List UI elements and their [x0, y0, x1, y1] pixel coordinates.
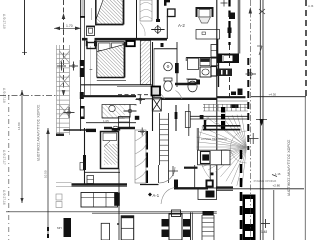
- bathroom top wall: [154, 48, 178, 50]
- cross symbol g: [246, 69, 257, 80]
- landing walls right: [203, 103, 248, 105]
- shaft black box: [152, 87, 161, 96]
- toilet T2: [188, 81, 197, 92]
- svg-text:1.05: 1.05: [103, 119, 109, 123]
- bedroom2 bottom wall: [81, 84, 152, 86]
- top dimension line 1.70: [54, 26, 81, 32]
- thick terrace wall: [72, 183, 128, 185]
- stove: [217, 69, 233, 77]
- bed B3 hatched: [104, 144, 117, 165]
- window cross symbol: [151, 25, 164, 34]
- door arc dining: [161, 188, 175, 205]
- shower room floor: [102, 105, 136, 119]
- black wall band in bath: [175, 83, 196, 85]
- vanity cabinet: [119, 117, 130, 128]
- balcony door sill: [64, 129, 87, 131]
- shower cabin: [188, 58, 199, 69]
- cross symbol b: [69, 62, 78, 71]
- svg-text:A.Φ.27-16: A.Φ.27-16: [2, 190, 6, 205]
- svg-text:A-1: A-1: [153, 193, 160, 198]
- lower-left small planters: [56, 194, 62, 200]
- wall mid: [194, 165, 196, 188]
- svg-text:1.16: 1.16: [275, 172, 281, 176]
- bath2 sink: [200, 67, 211, 77]
- nightstand N2: [87, 43, 96, 49]
- tick on boundary: [22, 52, 27, 54]
- main right wall: [216, 0, 218, 189]
- svg-text:1.70: 1.70: [66, 24, 73, 28]
- arrow on dash-dot: [249, 7, 252, 14]
- wall cap: [80, 16, 85, 18]
- heavy dashed boundary lower: [240, 150, 243, 240]
- bed B3 fold: [104, 141, 110, 147]
- stair duct black bar: [221, 107, 225, 130]
- bed B2 fold line: [97, 44, 125, 51]
- svg-text:A.Φ.27-19: A.Φ.27-19: [2, 14, 6, 29]
- boundary heavy dashed x229 top: [228, 0, 230, 45]
- bathroom mid wall: [176, 42, 178, 87]
- shower bench line: [102, 117, 130, 119]
- dining chairs right: [183, 219, 190, 227]
- svg-text:A-2: A-2: [178, 23, 185, 28]
- wall x176 with pier: [175, 105, 177, 131]
- sink S1: [164, 62, 173, 71]
- black box with white inner: [206, 180, 214, 188]
- svg-text:ΙΔΙΩΤΙΚΟΣ ΑΚΑΛΥΠΤΟΣ ΧΩΡΟΣ: ΙΔΙΩΤΙΚΟΣ ΑΚΑΛΥΠΤΟΣ ΧΩΡΟΣ: [37, 104, 41, 161]
- living room wall line: [118, 169, 120, 240]
- shower south dark band: [104, 127, 135, 130]
- heavy dashed boundary upper: [247, 58, 249, 150]
- black L wall: [174, 180, 178, 190]
- shower head circle: [109, 105, 115, 111]
- room3 left wall: [84, 128, 86, 185]
- terrace line across: [6, 211, 217, 213]
- counter with dark top: [200, 58, 210, 65]
- short wall: [186, 78, 196, 80]
- black pier bath2: [196, 80, 200, 85]
- sofa: [81, 193, 118, 208]
- arrow on property line: [259, 119, 263, 126]
- balcony railing strip: [57, 45, 70, 135]
- sofa dark right arm: [114, 193, 120, 206]
- coffee table: [101, 223, 109, 240]
- svg-text:Α.Φ.: Α.Φ.: [308, 4, 314, 8]
- bed B2 hatched: [97, 44, 125, 77]
- thin dash-dot x250 upper: [249, 0, 251, 150]
- left dimension line with arrows: [20, 90, 23, 203]
- plus mark top: [221, 0, 228, 7]
- stool: [87, 176, 94, 184]
- bed B1 frame: [95, 0, 97, 26]
- bathroom left wall: [152, 42, 154, 131]
- bench: [196, 30, 220, 40]
- bed B1 hatched: [96, 0, 124, 25]
- elevator black stack: [243, 195, 256, 240]
- axis arrows: [62, 13, 66, 96]
- svg-text:+2.80: +2.80: [273, 184, 281, 188]
- right ground line: [251, 96, 306, 98]
- dash-dot axis x63: [63, 0, 65, 96]
- kitchen small marks: [231, 92, 236, 96]
- heavy dashes bottom of dim line: [47, 227, 49, 240]
- room3 top wall: [86, 122, 136, 124]
- svg-text:+4.30: +4.30: [269, 92, 277, 96]
- right terrace line: [217, 188, 304, 190]
- wardrobe W1 arcs: [140, 0, 152, 21]
- nightstand N1: [87, 26, 95, 36]
- corridor black bar: [146, 131, 148, 183]
- black L bracket: [164, 0, 170, 6]
- lower-left black stair block: [64, 218, 72, 237]
- stair strip dark cap: [203, 211, 214, 216]
- landing double black wall: [203, 125, 241, 127]
- railing end cap: [56, 134, 64, 137]
- curved stair fan: [197, 114, 247, 187]
- X mark on line top: [259, 9, 265, 14]
- boundary thin dashed x229 lower: [229, 45, 231, 97]
- bed B2 pillows: [99, 43, 111, 51]
- balcony edge lines: [56, 182, 72, 184]
- bed B2 frame: [97, 42, 125, 78]
- lower-left dimension vline: [46, 128, 50, 238]
- toilet T1: [164, 81, 172, 91]
- sliding door dashed: [118, 94, 152, 96]
- door arc below W1: [140, 23, 145, 37]
- white patch: [125, 106, 138, 119]
- wall by dining: [190, 212, 192, 240]
- wall pier fills left: [80, 60, 84, 77]
- chair under desk: [199, 17, 211, 23]
- vline right of elevator: [273, 190, 275, 240]
- dining table: [169, 214, 182, 240]
- cross symbol e: [168, 166, 178, 176]
- svg-text:1.48: 1.48: [261, 230, 267, 234]
- dining chair top: [172, 210, 181, 217]
- svg-text:ΞΥΛΙΝΗ ΠΕΡΓΚΟΛΑ: ΞΥΛΙΝΗ ΠΕΡΓΚΟΛΑ: [201, 137, 227, 141]
- cross symbol f: [261, 219, 270, 228]
- bedroom1 right wall: [136, 0, 138, 39]
- window centre line: [90, 46, 92, 95]
- left boundary dash-dot vline: [8, 95, 10, 240]
- wall pier kitchen: [216, 39, 218, 54]
- seven mark: [257, 46, 262, 55]
- bathroom pier: [175, 63, 179, 73]
- small tick left of bed1: [90, 8, 92, 20]
- window jambs left: [86, 41, 88, 47]
- under-stair desk: [197, 128, 230, 165]
- bedroom1 left wall: [82, 0, 84, 16]
- A-2 room left wall: [166, 16, 168, 39]
- thin dash-dot lower: [250, 150, 252, 240]
- left margin tiny text column: [2, 14, 6, 205]
- window jamb box: [126, 41, 135, 46]
- svg-text:A.Φ.27-17: A.Φ.27-17: [2, 150, 6, 165]
- bed B1 fold line: [96, 0, 104, 21]
- big cross symbol hall: [124, 105, 137, 118]
- door arc living: [159, 167, 175, 183]
- dining chairs left: [162, 219, 169, 227]
- svg-text:10.50: 10.50: [44, 170, 48, 178]
- door arc corridor: [176, 91, 183, 100]
- porch edge double vline: [237, 0, 239, 54]
- stair down strip bottom right: [202, 215, 214, 240]
- top-right room: small square: [168, 9, 176, 17]
- duct shaft bottom: [121, 216, 134, 240]
- kitchen counter dark: [217, 54, 239, 64]
- shelf above bed3: [112, 128, 121, 131]
- cross symbol corridor: [136, 95, 146, 104]
- svg-text:ΜΠ: ΜΠ: [57, 226, 62, 230]
- stair left wall: [188, 104, 190, 136]
- kitchen island: [198, 188, 217, 200]
- far right boundary dashed: [305, 0, 307, 97]
- box with X: [152, 98, 161, 112]
- double property line: [259, 0, 261, 240]
- black blob hall: [135, 116, 140, 120]
- straight stair: [160, 113, 169, 183]
- dash-dot boundary hline y95: [0, 95, 58, 97]
- appliance box: [211, 67, 217, 77]
- left boundary vline top: [24, 0, 26, 55]
- svg-text:ΣΤΑΘΜΗ ΟΡΟΦΗΣ: ΣΤΑΘΜΗ ΟΡΟΦΗΣ: [254, 179, 277, 183]
- bed B3 frame: [101, 132, 119, 169]
- cross symbol a: [57, 62, 66, 71]
- bed B3 pillow: [103, 133, 117, 141]
- bidet oval: [113, 126, 119, 131]
- cross symbol d: [138, 128, 146, 136]
- kitchen tall cabinet: [211, 45, 218, 58]
- window gap left: [88, 38, 95, 42]
- label A-1: [148, 193, 152, 197]
- door jamb dark: [161, 43, 164, 47]
- svg-text:ΙΔΙΩΤΙΚΟΣ ΑΚΑΛΥΠΤΟΣ ΧΩΡΟΣ: ΙΔΙΩΤΙΚΟΣ ΑΚΑΛΥΠΤΟΣ ΧΩΡΟΣ: [287, 139, 291, 196]
- far right boundary solid: [304, 97, 306, 240]
- bath2 top wall: [186, 57, 218, 59]
- wall band between bedrooms: [82, 38, 167, 41]
- desk D1: [197, 8, 213, 17]
- door arc bath1: [154, 91, 165, 99]
- wardrobe W3 arcs: [135, 130, 146, 183]
- cross symbol h: [248, 133, 259, 144]
- cross symbol c: [64, 107, 75, 118]
- thick south wall of bedrooms: [81, 95, 136, 97]
- dim tick right: [272, 175, 277, 177]
- wardrobe W2 hatched: [140, 41, 150, 85]
- wall left of desk: [184, 167, 198, 169]
- svg-text:14.80: 14.80: [17, 122, 21, 130]
- room3 bottom wall: [85, 171, 121, 173]
- wardrobe W1 dark edge: [157, 0, 159, 21]
